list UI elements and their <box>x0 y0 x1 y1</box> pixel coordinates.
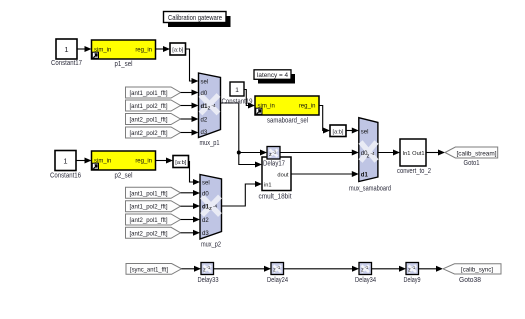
from tag sync_ant1_fft <box>126 264 182 275</box>
cast block [a:b] 1 <box>170 43 186 55</box>
goto tag Goto1 [calib_stream] <box>445 147 498 167</box>
svg-text:[a:b]: [a:b] <box>172 48 183 54</box>
svg-text:latency = 4: latency = 4 <box>257 72 288 79</box>
svg-text:[ant2_pol2_fft]: [ant2_pol2_fft] <box>130 231 168 237</box>
delay Delay34 <box>355 263 376 284</box>
wire tag to mux_p1 d2 <box>181 116 199 122</box>
wire tag to mux_p1 d1 <box>181 103 199 109</box>
mux mux_p1 <box>199 73 221 147</box>
svg-text:reg_in: reg_in <box>135 47 152 53</box>
wire Delay34 to Delay9 <box>372 266 407 272</box>
svg-text:-4: -4 <box>371 151 376 156</box>
subsystem samaboard_sel <box>255 96 319 124</box>
svg-text:1: 1 <box>235 87 239 94</box>
wire tag to mux_p1 d3 <box>181 130 199 136</box>
svg-text:[sync_ant1_fft]: [sync_ant1_fft] <box>130 267 168 273</box>
converter convert_to_2 <box>397 139 431 175</box>
from tag ant2_pol1_fft (group2) <box>126 214 181 225</box>
svg-text:cmult_18bit: cmult_18bit <box>259 194 292 201</box>
svg-text:-4: -4 <box>212 103 217 108</box>
from tag ant2_pol2_fft (group2) <box>126 227 181 238</box>
multiplier cmult_18bit <box>259 157 292 201</box>
svg-text:z: z <box>367 154 370 160</box>
svg-text:-4: -4 <box>213 204 218 209</box>
constant Constant19 <box>222 82 253 105</box>
svg-text:p2_sel: p2_sel <box>115 172 133 179</box>
from tag ant1_pol1_fft (group1) <box>126 87 181 98</box>
wire tag to mux_p2 d1 <box>181 203 201 209</box>
svg-text:1: 1 <box>63 157 67 166</box>
wire Delay24 to Delay34 <box>284 266 360 272</box>
svg-text:Delay34: Delay34 <box>355 277 376 284</box>
from tag ant1_pol2_fft (group2) <box>126 201 181 212</box>
constant Constant17 <box>51 39 82 67</box>
wire samaboard_sel to cast2 <box>319 106 330 134</box>
svg-text:mux_samaboard: mux_samaboard <box>349 185 391 192</box>
cast block [a:b] 2 <box>330 125 346 137</box>
wire mux_p2 out to cmult in1 <box>222 181 263 206</box>
wire Constant19 to samaboard_sel <box>244 90 255 109</box>
svg-text:Delay9: Delay9 <box>404 277 421 284</box>
svg-text:sel: sel <box>361 129 369 135</box>
svg-text:p1_sel: p1_sel <box>115 61 133 68</box>
svg-text:convert_to_2: convert_to_2 <box>397 168 431 175</box>
svg-text:Out1: Out1 <box>412 151 424 157</box>
wire mux_p1 out to junction / Delay17 / cmult in <box>221 103 268 168</box>
svg-text:dout: dout <box>277 172 288 178</box>
svg-text:Constant16: Constant16 <box>50 172 81 179</box>
subsystem p1_sel <box>92 40 156 68</box>
svg-text:[ant1_pol1_fft]: [ant1_pol1_fft] <box>130 191 168 197</box>
svg-text:d3: d3 <box>202 231 209 237</box>
svg-text:[ant1_pol2_fft]: [ant1_pol2_fft] <box>130 205 168 211</box>
svg-text:Goto38: Goto38 <box>459 277 481 284</box>
svg-text:d0: d0 <box>201 91 208 97</box>
subsystem p2_sel <box>92 151 156 179</box>
svg-text:reg_in: reg_in <box>135 158 152 164</box>
svg-text:In1: In1 <box>403 151 411 157</box>
wire tag to mux_p1 d0 <box>181 90 199 96</box>
wire cast1 to mux_p1 sel <box>186 49 199 84</box>
svg-text:d1: d1 <box>361 172 369 178</box>
svg-text:Delay33: Delay33 <box>198 277 219 284</box>
svg-text:d2: d2 <box>201 117 208 123</box>
svg-text:[a:b]: [a:b] <box>175 160 186 166</box>
svg-text:[a:b]: [a:b] <box>333 129 344 135</box>
wire p1_sel to cast1 <box>156 46 171 52</box>
wire Constant16 to p2_sel <box>76 158 92 164</box>
delay Delay33 <box>198 263 219 284</box>
wire Delay33 to Delay24 <box>214 266 272 272</box>
from tag ant1_pol1_fft (group2) <box>126 187 181 198</box>
svg-text:[ant1_pol2_fft]: [ant1_pol2_fft] <box>130 104 168 110</box>
wire tag to mux_p2 d2 <box>181 217 201 223</box>
wire p2_sel to cast3 <box>156 158 174 164</box>
svg-text:[ant2_pol1_fft]: [ant2_pol1_fft] <box>130 118 168 124</box>
from tag ant1_pol2_fft (group1) <box>126 100 181 111</box>
svg-text:Goto1: Goto1 <box>464 160 480 167</box>
svg-text:z: z <box>208 106 211 112</box>
wire tag to mux_p2 d3 <box>181 230 201 236</box>
delay Delay24 <box>267 263 288 284</box>
label Delay17 (overlaps cmult) <box>263 161 285 168</box>
wire Delay9 to Goto38 <box>419 266 444 272</box>
svg-text:z: z <box>209 206 212 212</box>
svg-text:sel: sel <box>202 180 210 186</box>
annotation title "Calibration gateware" <box>164 12 231 28</box>
from tag ant2_pol2_fft (group1) <box>126 127 181 138</box>
svg-text:[calib_sync]: [calib_sync] <box>461 267 493 274</box>
svg-text:[ant1_pol1_fft]: [ant1_pol1_fft] <box>130 91 168 97</box>
goto tag Goto38 [calib_sync] <box>443 264 501 284</box>
svg-text:samaboard_sel: samaboard_sel <box>267 117 308 124</box>
svg-text:mux_p2: mux_p2 <box>201 241 221 248</box>
wire cast2 to mux_samaboard sel <box>346 128 359 134</box>
svg-text:Constant19: Constant19 <box>222 98 253 105</box>
svg-text:in1: in1 <box>264 183 272 189</box>
svg-text:d2: d2 <box>202 218 209 224</box>
annotation "latency = 4" <box>254 70 295 84</box>
svg-text:[ant2_pol2_fft]: [ant2_pol2_fft] <box>130 131 168 137</box>
wire Constant17 to p1_sel <box>77 46 92 52</box>
mux mux_samaboard <box>349 118 391 193</box>
wire tag to mux_p2 d0 <box>181 190 201 196</box>
svg-text:[calib_stream]: [calib_stream] <box>457 150 497 157</box>
svg-text:[ant2_pol1_fft]: [ant2_pol1_fft] <box>130 218 168 224</box>
from tag ant2_pol1_fft (group1) <box>126 114 181 125</box>
svg-text:Constant17: Constant17 <box>51 60 82 67</box>
svg-text:mux_p1: mux_p1 <box>200 140 220 147</box>
delay Delay17 <box>267 147 280 160</box>
wire mux_samaboard to convert_to_2 <box>378 150 400 156</box>
svg-text:d3: d3 <box>201 130 208 136</box>
svg-text:d0: d0 <box>202 191 209 197</box>
svg-text:1: 1 <box>64 45 68 54</box>
wire convert_to_2 to Goto1 <box>426 150 445 156</box>
wire cast3 to mux_p2 sel <box>189 162 201 186</box>
svg-text:sel: sel <box>201 79 209 85</box>
wire sync tag to Delay33 <box>182 266 202 272</box>
svg-text:Delay17: Delay17 <box>263 161 285 168</box>
constant Constant16 <box>50 151 81 180</box>
svg-text:Calibration gateware: Calibration gateware <box>168 13 222 22</box>
mux mux_p2 <box>200 175 222 249</box>
wire cmult dout to mux_samaboard d1 <box>291 171 359 177</box>
svg-text:reg_in: reg_in <box>299 103 316 109</box>
delay Delay9 <box>404 263 421 284</box>
wire Delay17 to mux_samaboard d0 <box>280 150 359 156</box>
cast block [a:b] 3 <box>173 156 189 168</box>
svg-text:Delay24: Delay24 <box>267 277 288 284</box>
